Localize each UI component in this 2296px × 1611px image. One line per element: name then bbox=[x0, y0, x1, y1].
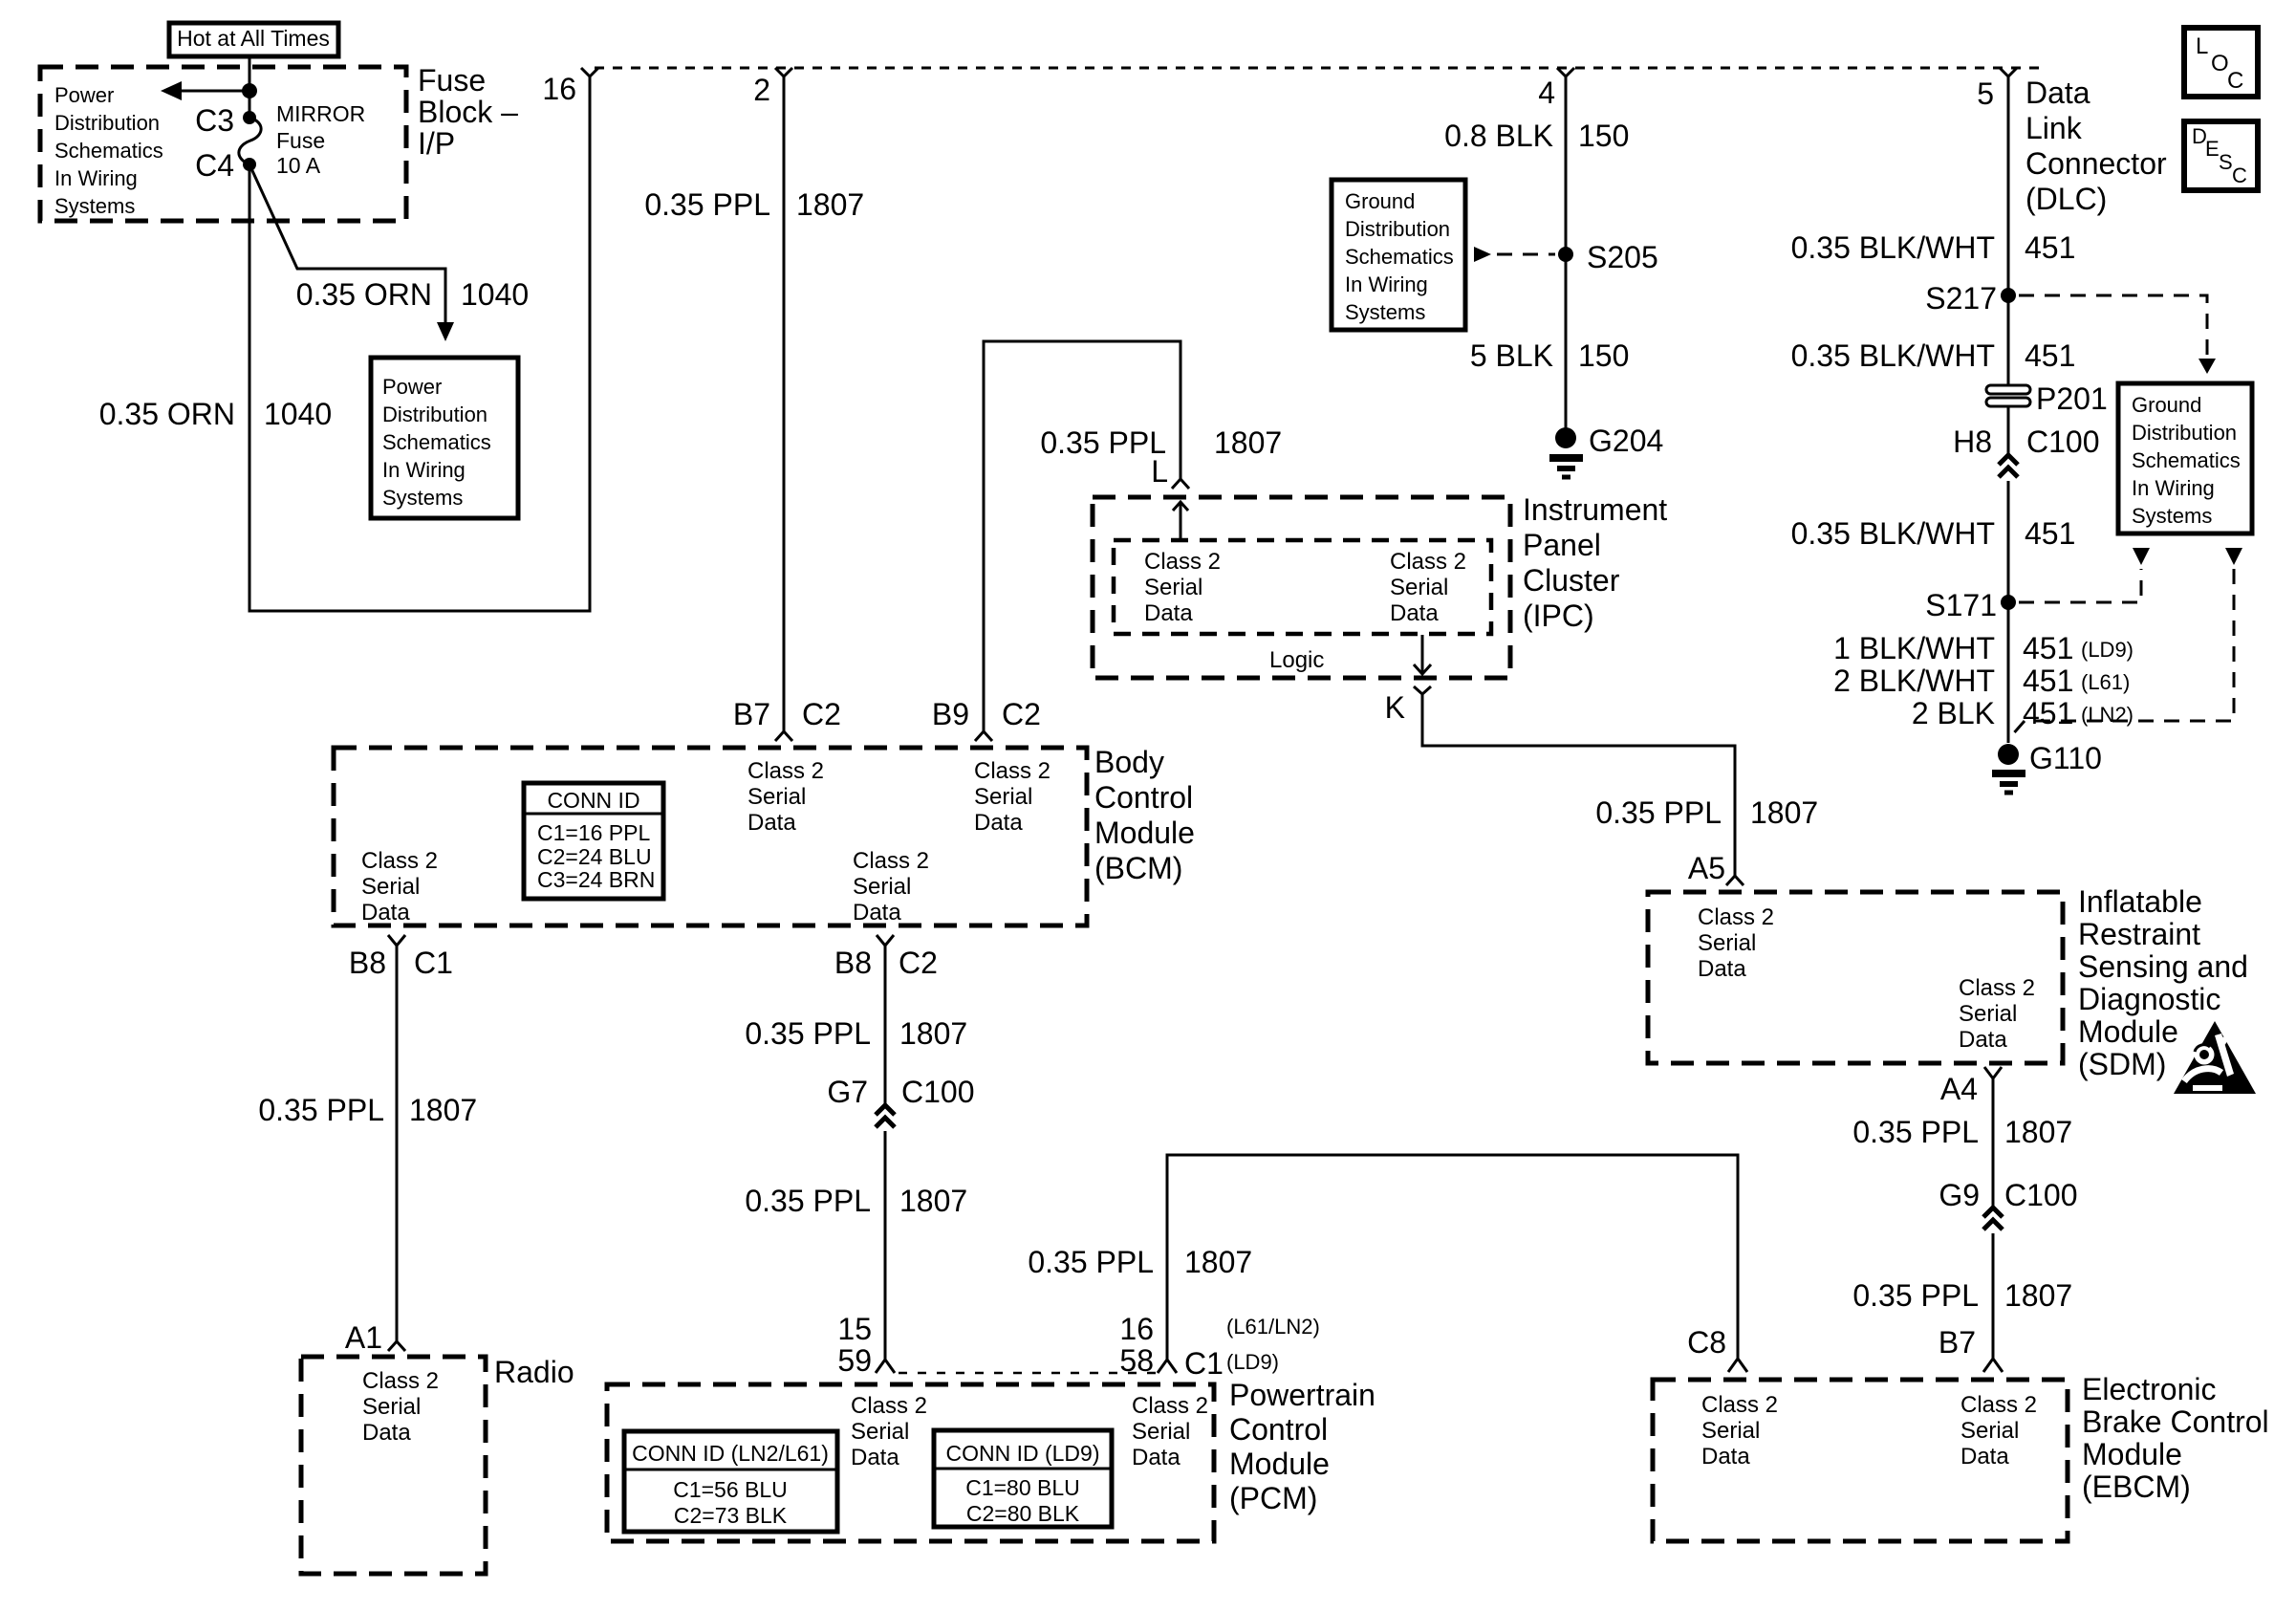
svg-text:Distribution: Distribution bbox=[382, 403, 487, 426]
Radio label bbox=[494, 1355, 574, 1389]
svg-text:0.35 PPL: 0.35 PPL bbox=[745, 1184, 871, 1218]
svg-text:Powertrain: Powertrain bbox=[1229, 1378, 1375, 1412]
IPC pin L fork bbox=[1151, 454, 1189, 489]
arrow below box (left) bbox=[2133, 548, 2150, 565]
wire label 0.35 PPL 1807 (riser) bbox=[1028, 1245, 1252, 1279]
IPC internal wire with up arrow bbox=[1173, 502, 1188, 540]
svg-text:4: 4 bbox=[1538, 76, 1555, 110]
svg-text:1040: 1040 bbox=[264, 397, 332, 431]
wire label 0.35 PPL 1807 (IPC L) bbox=[1040, 425, 1282, 460]
svg-text:0.35 BLK/WHT: 0.35 BLK/WHT bbox=[1791, 338, 1995, 373]
svg-text:O: O bbox=[2211, 51, 2229, 76]
svg-text:H8: H8 bbox=[1953, 425, 1992, 459]
svg-text:C8: C8 bbox=[1687, 1325, 1726, 1360]
Radio pin A1 fork bbox=[345, 1320, 405, 1355]
svg-text:Data: Data bbox=[1390, 600, 1439, 626]
svg-text:In Wiring: In Wiring bbox=[2132, 476, 2215, 500]
IPC Logic label bbox=[1269, 647, 1324, 673]
svg-text:(LD9): (LD9) bbox=[1226, 1350, 1279, 1374]
svg-text:Module: Module bbox=[2082, 1437, 2182, 1471]
svg-text:Serial: Serial bbox=[974, 784, 1032, 810]
Fuse Block label bbox=[418, 63, 518, 161]
svg-text:Serial: Serial bbox=[747, 784, 806, 810]
svg-text:CONN ID (LN2/L61): CONN ID (LN2/L61) bbox=[632, 1441, 829, 1466]
C100 break chevrons (H8) bbox=[1999, 455, 2018, 477]
svg-text:In Wiring: In Wiring bbox=[382, 458, 466, 482]
svg-text:C3=24 BRN: C3=24 BRN bbox=[537, 867, 655, 892]
svg-text:Class 2: Class 2 bbox=[747, 758, 824, 784]
SDM pin A5 fork bbox=[1688, 851, 1744, 885]
BCM CONN ID table bbox=[524, 783, 663, 899]
svg-text:Control: Control bbox=[1229, 1412, 1328, 1447]
svg-text:0.35 ORN: 0.35 ORN bbox=[99, 397, 235, 431]
wire label 0.35 PPL 1807 (B8 C2 lower) bbox=[745, 1184, 967, 1218]
svg-text:1 BLK/WHT: 1 BLK/WHT bbox=[1833, 631, 1995, 665]
wire label 0.35 PPL 1807 (radio) bbox=[258, 1093, 477, 1127]
svg-text:(L61/LN2): (L61/LN2) bbox=[1226, 1315, 1320, 1339]
svg-text:1807: 1807 bbox=[2004, 1278, 2072, 1313]
svg-text:C1=80 BLU: C1=80 BLU bbox=[965, 1475, 1080, 1500]
svg-text:C1=16 PPL: C1=16 PPL bbox=[537, 820, 650, 845]
svg-text:I/P: I/P bbox=[418, 126, 455, 161]
svg-text:C2=24 BLU: C2=24 BLU bbox=[537, 844, 652, 869]
svg-text:(LD9): (LD9) bbox=[2081, 638, 2134, 662]
svg-text:Brake Control: Brake Control bbox=[2082, 1404, 2269, 1439]
EBCM pin C8 fork bbox=[1687, 1325, 1747, 1372]
svg-text:(IPC): (IPC) bbox=[1523, 599, 1594, 633]
svg-text:Serial: Serial bbox=[1144, 575, 1202, 600]
svg-text:C: C bbox=[2227, 68, 2243, 94]
BCM Class 2 Serial Data (under B9) bbox=[974, 758, 1051, 836]
svg-text:Serial: Serial bbox=[1390, 575, 1448, 600]
svg-text:Module: Module bbox=[1094, 816, 1195, 850]
wire label 1 BLK/WHT 451 (LD9) bbox=[1833, 631, 2134, 665]
svg-text:Schematics: Schematics bbox=[54, 139, 163, 163]
fuse MIRROR 10A element bbox=[239, 118, 261, 164]
PCM riser wire to EBCM C8 bbox=[1167, 1155, 1738, 1360]
wire label 2 BLK 451 (LN2) bbox=[1912, 696, 2134, 730]
svg-text:(SDM): (SDM) bbox=[2078, 1047, 2166, 1081]
svg-text:Logic: Logic bbox=[1269, 647, 1324, 673]
pass-through grommet P201 bbox=[1986, 381, 2108, 416]
svg-text:Class 2: Class 2 bbox=[1701, 1392, 1778, 1418]
svg-text:1807: 1807 bbox=[1750, 795, 1818, 830]
wire P201 to C100 break bbox=[2007, 406, 2010, 455]
svg-text:In Wiring: In Wiring bbox=[1345, 272, 1428, 296]
svg-text:Schematics: Schematics bbox=[2132, 448, 2241, 472]
BCM pin B7 C2 fork bbox=[733, 697, 841, 741]
PCM Class 2 Serial Data (right) bbox=[1132, 1393, 1208, 1470]
svg-text:C100: C100 bbox=[901, 1075, 975, 1109]
svg-text:Serial: Serial bbox=[1959, 1001, 2017, 1027]
branch wire from C4 to power distribution arrow bbox=[249, 164, 454, 341]
svg-text:Radio: Radio bbox=[494, 1355, 574, 1389]
svg-text:Data: Data bbox=[362, 1420, 411, 1446]
wire DLC pin 2 to BCM B7 (0.35 PPL 1807) bbox=[783, 76, 786, 731]
EBCM module dashed box bbox=[1653, 1380, 2068, 1541]
svg-text:A4: A4 bbox=[1940, 1072, 1978, 1106]
svg-text:5 BLK: 5 BLK bbox=[1470, 338, 1553, 373]
svg-text:Schematics: Schematics bbox=[382, 430, 491, 454]
Inflatable Restraint SDM label bbox=[2078, 884, 2248, 1081]
splice S205 bbox=[1558, 240, 1658, 274]
svg-text:Class 2: Class 2 bbox=[1390, 549, 1466, 575]
svg-text:451: 451 bbox=[2025, 230, 2075, 265]
PCM pin 16/58 fork bbox=[1119, 1312, 1319, 1381]
svg-text:C100: C100 bbox=[2026, 425, 2100, 459]
Body Control Module (BCM) label bbox=[1094, 745, 1195, 885]
svg-text:Class 2: Class 2 bbox=[974, 758, 1051, 784]
IPC Class 2 Serial Data (right) bbox=[1390, 549, 1466, 626]
svg-text:Class 2: Class 2 bbox=[1959, 975, 2035, 1001]
PCM CONN ID (LN2/L61) table bbox=[624, 1431, 837, 1532]
svg-text:451: 451 bbox=[2023, 696, 2073, 730]
dashed tie between PCM pins bbox=[899, 1372, 1158, 1375]
wire from Hot at All Times down to fuse bbox=[249, 56, 251, 118]
svg-text:Electronic: Electronic bbox=[2082, 1372, 2217, 1406]
svg-text:C: C bbox=[2232, 163, 2247, 187]
svg-text:Hot at All Times: Hot at All Times bbox=[177, 26, 330, 51]
svg-text:451: 451 bbox=[2025, 338, 2075, 373]
splice S171 bbox=[1925, 588, 2016, 622]
svg-text:Cluster: Cluster bbox=[1523, 563, 1620, 598]
BCM module dashed box bbox=[334, 748, 1087, 925]
svg-text:(BCM): (BCM) bbox=[1094, 851, 1182, 885]
EBCM pin B7 fork bbox=[1939, 1325, 2003, 1372]
svg-text:16: 16 bbox=[1119, 1312, 1154, 1346]
IPC pin K fork bbox=[1385, 686, 1431, 725]
svg-text:CONN ID: CONN ID bbox=[547, 788, 639, 813]
wire C100 to S171 to G110 bbox=[2007, 481, 2010, 743]
MIRROR Fuse 10 A label bbox=[276, 101, 365, 178]
svg-text:451: 451 bbox=[2025, 516, 2075, 551]
wire label 0.8 BLK 150 bbox=[1444, 119, 1629, 153]
svg-text:Serial: Serial bbox=[362, 1394, 421, 1420]
svg-text:Data: Data bbox=[1701, 1444, 1750, 1469]
svg-text:0.35 PPL: 0.35 PPL bbox=[258, 1093, 384, 1127]
svg-text:S: S bbox=[2219, 150, 2233, 174]
svg-text:Data: Data bbox=[1132, 1445, 1180, 1470]
Fuse Block - I/P dashed box bbox=[40, 67, 406, 221]
SDM Class 2 Serial Data (right) bbox=[1959, 975, 2035, 1053]
svg-text:451: 451 bbox=[2023, 631, 2073, 665]
svg-text:Power: Power bbox=[382, 375, 442, 399]
svg-text:Data: Data bbox=[1960, 1444, 2009, 1469]
wire BCM B9 to IPC L bbox=[984, 341, 1180, 731]
svg-text:Instrument: Instrument bbox=[1523, 492, 1667, 527]
LOC legend box bbox=[2184, 28, 2258, 97]
svg-text:Power: Power bbox=[54, 83, 114, 107]
wire C100 to PCM pin 15/59 bbox=[884, 1131, 887, 1360]
svg-text:Schematics: Schematics bbox=[1345, 245, 1454, 269]
svg-text:10 A: 10 A bbox=[276, 153, 321, 178]
wire label 0.35 PPL 1807 (A4 lower) bbox=[1852, 1278, 2072, 1313]
svg-text:59: 59 bbox=[837, 1343, 872, 1378]
svg-text:451: 451 bbox=[2023, 664, 2073, 698]
svg-text:Systems: Systems bbox=[382, 486, 463, 510]
svg-text:In Wiring: In Wiring bbox=[54, 166, 138, 190]
svg-text:Data: Data bbox=[747, 810, 796, 836]
svg-text:Serial: Serial bbox=[851, 1419, 909, 1445]
svg-text:C100: C100 bbox=[2004, 1178, 2078, 1212]
Radio Class 2 Serial Data bbox=[362, 1368, 439, 1446]
Ground Distribution Schematics box (right) bbox=[2118, 383, 2252, 533]
Power Distribution Schematics box (solid) bbox=[371, 358, 518, 518]
DLC connector dashed bus line bbox=[595, 67, 2042, 70]
DLC pin 2 fork bbox=[753, 68, 792, 107]
svg-text:5: 5 bbox=[1977, 76, 1994, 111]
wire BCM B8 C2 to PCM 15/59 upper segment bbox=[884, 946, 887, 1105]
svg-text:S205: S205 bbox=[1587, 240, 1658, 274]
wire label 0.35 PPL 1807 (pin 2) bbox=[644, 187, 864, 222]
svg-text:Block –: Block – bbox=[418, 95, 518, 129]
IPC K output wire with down arrow bbox=[1414, 635, 1431, 674]
C100 break chevrons (G9) bbox=[1983, 1208, 2003, 1230]
Ground Distribution Schematics box (left) bbox=[1332, 180, 1465, 330]
svg-text:C1=56 BLU: C1=56 BLU bbox=[673, 1477, 788, 1502]
BCM Class 2 Serial Data (above B8 C2) bbox=[853, 848, 929, 925]
DESC legend box bbox=[2184, 121, 2258, 190]
svg-text:Serial: Serial bbox=[1132, 1419, 1190, 1445]
svg-text:S217: S217 bbox=[1925, 281, 1997, 316]
svg-text:G7: G7 bbox=[827, 1075, 868, 1109]
wire SDM A4 to C100 break bbox=[1992, 1078, 1995, 1208]
svg-text:150: 150 bbox=[1578, 338, 1629, 373]
Electronic Brake Control Module (EBCM) label bbox=[2082, 1372, 2269, 1504]
svg-text:Sensing and: Sensing and bbox=[2078, 949, 2248, 984]
svg-text:Inflatable: Inflatable bbox=[2078, 884, 2202, 919]
Powertrain Control Module (PCM) label bbox=[1229, 1378, 1375, 1515]
arrow below box (right) bbox=[2225, 548, 2242, 565]
C100 break chevrons (G7) bbox=[876, 1105, 895, 1127]
svg-text:C2=80 BLK: C2=80 BLK bbox=[966, 1501, 1080, 1526]
svg-text:Class 2: Class 2 bbox=[851, 1393, 927, 1419]
svg-text:Data: Data bbox=[851, 1445, 899, 1470]
svg-text:Body: Body bbox=[1094, 745, 1164, 779]
wire label 5 BLK 150 bbox=[1470, 338, 1630, 373]
svg-text:1040: 1040 bbox=[461, 277, 529, 312]
svg-text:Connector: Connector bbox=[2025, 146, 2167, 181]
svg-text:Fuse: Fuse bbox=[276, 128, 325, 153]
svg-text:Systems: Systems bbox=[1345, 300, 1425, 324]
arrow to power distribution (left) bbox=[161, 81, 249, 100]
PCM module dashed box bbox=[607, 1384, 1214, 1541]
svg-text:Class 2: Class 2 bbox=[1144, 549, 1221, 575]
svg-text:2 BLK: 2 BLK bbox=[1912, 696, 1995, 730]
svg-text:0.35 PPL: 0.35 PPL bbox=[1040, 425, 1166, 460]
svg-text:2 BLK/WHT: 2 BLK/WHT bbox=[1833, 664, 1995, 698]
svg-text:Class 2: Class 2 bbox=[1132, 1393, 1208, 1419]
svg-text:1807: 1807 bbox=[2004, 1115, 2072, 1149]
PCM pin 15/59 fork bbox=[837, 1312, 895, 1378]
svg-text:Diagnostic: Diagnostic bbox=[2078, 982, 2220, 1016]
Power Distribution note (in fuse block) bbox=[54, 83, 163, 218]
BCM Class 2 Serial Data (under B7) bbox=[747, 758, 824, 836]
svg-text:P201: P201 bbox=[2036, 381, 2108, 416]
svg-text:0.8 BLK: 0.8 BLK bbox=[1444, 119, 1553, 153]
svg-text:Ground: Ground bbox=[2132, 393, 2201, 417]
svg-text:0.35 PPL: 0.35 PPL bbox=[745, 1016, 871, 1051]
ground G110 bbox=[1992, 741, 2102, 793]
svg-text:Fuse: Fuse bbox=[418, 63, 486, 98]
Instrument Panel Cluster (IPC) label bbox=[1523, 492, 1667, 633]
wire from fuse C4 to DLC pin 16 bbox=[249, 76, 590, 611]
DLC pin 5 fork bbox=[1977, 68, 2017, 111]
svg-text:1807: 1807 bbox=[1214, 425, 1282, 460]
wire label 0.35 PPL 1807 (K to A5) bbox=[1595, 795, 1818, 830]
svg-text:Serial: Serial bbox=[1960, 1418, 2019, 1444]
svg-text:Serial: Serial bbox=[1701, 1418, 1760, 1444]
splice S217 bbox=[1925, 281, 2016, 316]
svg-text:Distribution: Distribution bbox=[1345, 217, 1450, 241]
C4 pin label bbox=[195, 148, 234, 183]
node C4 bbox=[243, 158, 256, 171]
svg-text:C2: C2 bbox=[802, 697, 841, 731]
svg-text:C4: C4 bbox=[195, 148, 234, 183]
DLC pin 4 fork bbox=[1538, 68, 1574, 110]
BCM Class 2 Serial Data (left) bbox=[361, 848, 438, 925]
svg-text:Class 2: Class 2 bbox=[853, 848, 929, 874]
svg-text:Data: Data bbox=[1144, 600, 1193, 626]
svg-text:B7: B7 bbox=[733, 697, 770, 731]
svg-text:0.35 PPL: 0.35 PPL bbox=[1852, 1115, 1979, 1149]
svg-text:Class 2: Class 2 bbox=[361, 848, 438, 874]
C3 pin label bbox=[195, 103, 234, 138]
connector C100 pin G9 labels bbox=[1939, 1178, 2077, 1212]
dashed reference link S217 to ground distribution box bbox=[2019, 295, 2216, 374]
svg-text:Data: Data bbox=[974, 810, 1023, 836]
wire label 0.35 PPL 1807 (A4 upper) bbox=[1852, 1115, 2072, 1149]
svg-text:(L61): (L61) bbox=[2081, 670, 2130, 694]
ground G204 bbox=[1549, 424, 1663, 477]
svg-text:G204: G204 bbox=[1589, 424, 1663, 458]
svg-text:Serial: Serial bbox=[1698, 930, 1756, 956]
svg-text:Module: Module bbox=[2078, 1014, 2178, 1049]
wire label 0.35 PPL 1807 (B8 C2 upper) bbox=[745, 1016, 967, 1051]
SDM Class 2 Serial Data (top left) bbox=[1698, 904, 1774, 982]
svg-text:0.35 PPL: 0.35 PPL bbox=[1852, 1278, 1979, 1313]
SDM airbag warning icon bbox=[2174, 1021, 2256, 1094]
svg-text:G9: G9 bbox=[1939, 1178, 1980, 1212]
wire label 0.35 ORN 1040 (branch) bbox=[296, 277, 529, 312]
svg-text:0.35 PPL: 0.35 PPL bbox=[1028, 1245, 1154, 1279]
svg-text:L: L bbox=[2196, 33, 2208, 59]
wire DLC pin 4 to G204 bbox=[1565, 76, 1568, 429]
svg-text:S171: S171 bbox=[1925, 588, 1997, 622]
svg-text:0.35 PPL: 0.35 PPL bbox=[644, 187, 770, 222]
svg-text:C1: C1 bbox=[414, 946, 453, 980]
connector C100 pin G7 labels bbox=[827, 1075, 974, 1109]
svg-text:B7: B7 bbox=[1939, 1325, 1976, 1360]
svg-text:150: 150 bbox=[1578, 119, 1629, 153]
svg-text:Data: Data bbox=[2025, 76, 2090, 110]
PCM CONN ID (LD9) table bbox=[934, 1430, 1112, 1527]
svg-text:0.35 BLK/WHT: 0.35 BLK/WHT bbox=[1791, 230, 1995, 265]
IPC logic inner dashed box bbox=[1114, 540, 1491, 634]
node C3 bbox=[243, 111, 256, 124]
svg-text:C3: C3 bbox=[195, 103, 234, 138]
wire DLC pin 5 upper segment to P201 bbox=[2007, 76, 2010, 385]
svg-text:(EBCM): (EBCM) bbox=[2082, 1469, 2191, 1504]
svg-text:Data: Data bbox=[853, 900, 901, 925]
svg-text:C2=73 BLK: C2=73 BLK bbox=[674, 1503, 788, 1528]
svg-text:Systems: Systems bbox=[54, 194, 135, 218]
svg-text:Distribution: Distribution bbox=[54, 111, 160, 135]
svg-text:1807: 1807 bbox=[899, 1184, 967, 1218]
svg-text:Panel: Panel bbox=[1523, 528, 1601, 562]
wire label 0.35 ORN 1040 (main) bbox=[99, 397, 332, 431]
svg-text:C1: C1 bbox=[1184, 1346, 1224, 1381]
wire BCM B8 C1 to Radio A1 bbox=[396, 946, 399, 1341]
svg-text:Distribution: Distribution bbox=[2132, 421, 2237, 445]
SDM module dashed box bbox=[1648, 892, 2063, 1063]
wire label 0.35 BLK/WHT 451 (mid) bbox=[1791, 338, 2076, 373]
svg-text:Data: Data bbox=[1959, 1027, 2007, 1053]
svg-text:C2: C2 bbox=[1002, 697, 1041, 731]
svg-text:Control: Control bbox=[1094, 780, 1193, 815]
BCM pin B8 C2 fork bbox=[834, 935, 938, 980]
BCM pin B9 C2 fork bbox=[932, 697, 1041, 741]
svg-text:0.35 BLK/WHT: 0.35 BLK/WHT bbox=[1791, 516, 1995, 551]
svg-text:A5: A5 bbox=[1688, 851, 1725, 885]
svg-text:Serial: Serial bbox=[361, 874, 420, 900]
svg-text:G110: G110 bbox=[2029, 741, 2102, 775]
dashed reference link G110 to box arrow bbox=[2011, 569, 2234, 736]
svg-text:B9: B9 bbox=[932, 697, 969, 731]
DLC pin 16 fork bbox=[542, 68, 598, 106]
svg-text:Restraint: Restraint bbox=[2078, 917, 2200, 951]
dashed reference link S171 to box arrow bbox=[2019, 569, 2141, 602]
svg-text:Data: Data bbox=[1698, 956, 1746, 982]
wire IPC K to SDM A5 bbox=[1422, 694, 1735, 876]
svg-text:B8: B8 bbox=[349, 946, 386, 980]
svg-text:0.35 ORN: 0.35 ORN bbox=[296, 277, 432, 312]
svg-text:E: E bbox=[2205, 137, 2220, 161]
svg-text:Serial: Serial bbox=[853, 874, 911, 900]
wire C100 to EBCM B7 bbox=[1992, 1233, 1995, 1359]
svg-text:Class 2: Class 2 bbox=[1698, 904, 1774, 930]
svg-text:1807: 1807 bbox=[796, 187, 864, 222]
svg-text:(DLC): (DLC) bbox=[2025, 182, 2107, 216]
svg-text:Class 2: Class 2 bbox=[362, 1368, 439, 1394]
connector C100 pin H8 labels bbox=[1953, 425, 2099, 459]
Radio module dashed box bbox=[301, 1357, 486, 1574]
svg-text:16: 16 bbox=[542, 72, 576, 106]
BCM pin B8 C1 fork bbox=[349, 935, 453, 980]
svg-text:0.35 PPL: 0.35 PPL bbox=[1595, 795, 1722, 830]
svg-text:B8: B8 bbox=[834, 946, 872, 980]
svg-text:C2: C2 bbox=[899, 946, 938, 980]
Hot at All Times box bbox=[169, 23, 338, 56]
svg-text:Module: Module bbox=[1229, 1447, 1330, 1481]
svg-text:2: 2 bbox=[753, 73, 770, 107]
svg-text:(PCM): (PCM) bbox=[1229, 1481, 1317, 1515]
wire label 0.35 BLK/WHT 451 (lower) bbox=[1791, 516, 2076, 551]
SDM pin A4 fork bbox=[1940, 1067, 2002, 1106]
svg-text:A1: A1 bbox=[345, 1320, 382, 1355]
svg-text:1807: 1807 bbox=[409, 1093, 477, 1127]
svg-text:(LN2): (LN2) bbox=[2081, 703, 2134, 727]
junction node at arrow bbox=[242, 83, 257, 98]
svg-text:Class 2: Class 2 bbox=[1960, 1392, 2037, 1418]
wire label 0.35 BLK/WHT 451 (upper) bbox=[1791, 230, 2076, 265]
PCM Class 2 Serial Data (left) bbox=[851, 1393, 927, 1470]
svg-text:Systems: Systems bbox=[2132, 504, 2212, 528]
pointer arrow from box to S205 bbox=[1474, 247, 1555, 262]
EBCM Class 2 Serial Data (right) bbox=[1960, 1392, 2037, 1469]
EBCM Class 2 Serial Data (left) bbox=[1701, 1392, 1778, 1469]
svg-text:L: L bbox=[1151, 454, 1168, 489]
